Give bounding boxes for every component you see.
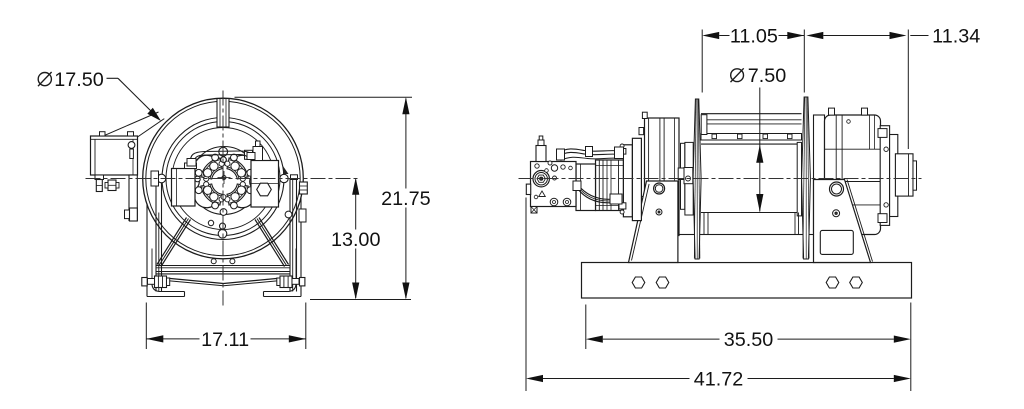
hub retainer band end lugs: [240, 182, 245, 187]
dim 21.75 extension bottom: [310, 299, 411, 301]
left box wing fitting: [108, 180, 116, 191]
left view diagonal brace right: [259, 218, 289, 265]
dim 11.05 extension left: [701, 30, 703, 93]
left blade top bracket: [701, 115, 707, 135]
hub south edge bolt: [220, 209, 227, 216]
hydraulic hose over hub: [190, 151, 252, 164]
motor body: [596, 160, 624, 211]
dim diameter 7.50 symbol: [731, 69, 744, 82]
right view center line: [519, 178, 922, 180]
dim 11.05 line+arrows: [702, 32, 719, 39]
bearing circle R51: [172, 128, 274, 230]
hub bearing balls: [237, 186, 245, 194]
left view left foot angle bracket: [146, 204, 148, 297]
dim 41.72 line: [526, 375, 543, 382]
drum flange outer circle: [143, 98, 304, 259]
dim 11.34 extension right: [907, 30, 909, 150]
dim 17.11 extension lines: [145, 303, 147, 350]
left hub side bolt plate: [151, 171, 159, 186]
svg-text:35.50: 35.50: [724, 329, 774, 351]
dim 41.72 extension left: [525, 198, 527, 392]
left box support plate: [129, 175, 137, 221]
drum cradle crossmember: [678, 235, 815, 263]
bolt circle bottom pair: [220, 223, 226, 229]
svg-text:41.72: 41.72: [694, 368, 744, 390]
drum flange inner ring: [146, 101, 300, 255]
left box diagonal edges: [105, 112, 158, 135]
left view base plate holes: [211, 259, 216, 264]
hub left plate lines: [176, 169, 178, 207]
base plate: [582, 263, 912, 299]
name plate: [820, 230, 853, 254]
drum cable top lines: [701, 113, 802, 115]
dim 35.50 extension left: [585, 305, 587, 350]
dim 13.00 line: [355, 180, 357, 230]
left bracket small hole: [656, 209, 662, 215]
hub left plate: [172, 169, 196, 207]
dim 17.50 leader: [107, 77, 119, 79]
left box top nubs: [100, 132, 106, 136]
right side bolt small: [291, 175, 298, 180]
hub left plate step: [185, 163, 197, 169]
hose fittings upper: [557, 149, 565, 160]
bearing circle R57: [166, 122, 280, 236]
hub west edge bolt: [195, 176, 201, 182]
top cable clamp block: [217, 99, 229, 128]
left view right foot angle bracket: [300, 197, 302, 297]
left drum flange blade: [693, 99, 701, 259]
right upright bracket: [814, 180, 871, 263]
dim 21.75 line: [405, 99, 407, 189]
drum barrel top line: [701, 143, 802, 145]
adapter bolts: [619, 149, 626, 155]
bearing circle R61: [162, 118, 284, 240]
dim 35.50/41.72 extension right: [910, 303, 912, 392]
hose lower: [578, 185, 614, 200]
valve main block: [531, 162, 577, 207]
drum hub plates left: [681, 143, 685, 209]
hub south gap bolt: [221, 195, 226, 200]
brake housing box: [645, 118, 680, 236]
clutch housing top bolts: [829, 108, 835, 115]
cable anchor left flange: [678, 168, 684, 180]
drum tie band: [701, 134, 802, 141]
valve warning triangle: [539, 191, 546, 197]
svg-text:11.34: 11.34: [932, 25, 980, 47]
clutch end cap2: [890, 135, 898, 217]
hub right valve plate: [251, 161, 279, 208]
left box housing: [91, 136, 138, 175]
left box drain plug: [95, 175, 104, 180]
dim 35.50 line: [586, 336, 603, 343]
dim 17.11 line: [146, 338, 199, 340]
clutch end cap1: [880, 126, 889, 226]
bolt circle left: [157, 174, 166, 183]
hose fittings lower: [573, 181, 581, 191]
motor adapter plate1: [623, 145, 632, 217]
hub bolt ring: [247, 187, 254, 194]
dim 21.75 extension top: [235, 96, 413, 98]
svg-text:17.11: 17.11: [201, 329, 249, 351]
left bracket hole: [654, 183, 665, 194]
right bracket hole: [830, 182, 844, 196]
hub north edge bolt: [221, 157, 227, 163]
clutch housing main: [825, 115, 881, 235]
svg-text:7.50: 7.50: [748, 65, 787, 87]
clutch cap bolts: [878, 129, 887, 138]
svg-text:13.00: 13.00: [331, 229, 381, 251]
right side hex bolt: [300, 182, 308, 194]
left view horizontal center line: [86, 178, 361, 180]
valve bottom tab: [531, 207, 537, 214]
svg-text:21.75: 21.75: [381, 188, 431, 210]
clutch output cylinder: [895, 154, 913, 196]
valve left tab: [526, 184, 530, 194]
left view tie-rod bolt right: [280, 276, 292, 288]
hose end fittings: [187, 159, 196, 167]
drum barrel bottom line: [701, 212, 802, 214]
base hex bolts: [632, 277, 645, 288]
valve manifold sub: [576, 164, 596, 211]
hub retainer inner arcs: [228, 185, 239, 196]
left view horizontal tie bar: [157, 265, 291, 267]
bolt circle right: [280, 174, 288, 182]
clutch housing sub panel: [814, 115, 825, 233]
left view lower V brace: [155, 277, 224, 284]
svg-text:17.50: 17.50: [54, 69, 104, 91]
valve top fitting: [536, 146, 546, 162]
bolt circle top: [219, 147, 228, 156]
left upright bracket: [629, 181, 678, 263]
hub lobed casting plate: [194, 155, 254, 207]
left box lifting ring: [128, 142, 135, 149]
drum hub plate right: [797, 142, 801, 216]
drum barrel end steps: [703, 213, 705, 235]
hub right plate top fitting: [245, 150, 253, 159]
left view tie-rod bolt left: [155, 276, 167, 288]
left side tab bolt: [125, 210, 130, 219]
right drum flange blade: [802, 97, 811, 259]
right side clip: [285, 211, 292, 218]
motor adapter plate2: [632, 138, 641, 220]
right side wedge mark: [283, 166, 289, 174]
dim 11.34 line+arrows: [806, 32, 823, 39]
svg-text:11.05: 11.05: [730, 25, 778, 47]
brake cylinder circle R34: [190, 147, 258, 215]
dim diameter 17.50 symbol: [38, 73, 51, 86]
valve small ports: [551, 165, 557, 171]
left view frame right leg plate: [289, 179, 291, 292]
hub retainer arc segments: [227, 184, 248, 205]
clutch output step: [913, 161, 917, 190]
left view diagonal brace left: [157, 218, 187, 265]
dim 7.50 leader+arrows: [759, 88, 761, 212]
hub right plate hex plug: [257, 183, 272, 196]
valve gauge port: [533, 171, 549, 187]
right bracket small hole: [833, 210, 840, 217]
left view vertical center line: [222, 91, 224, 309]
dim 11.05 extension right: [803, 30, 805, 93]
hose upper pair: [558, 149, 622, 153]
hub center mark: [222, 176, 226, 180]
left view frame left leg plate: [155, 182, 157, 292]
